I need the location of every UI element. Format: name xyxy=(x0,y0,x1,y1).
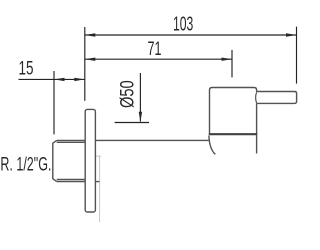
spout outlet right edge xyxy=(256,134,258,153)
fitting top thread line outer / spout top line xyxy=(57,139,209,141)
arrow 71 left xyxy=(85,58,96,61)
extension line 15 xyxy=(53,71,55,134)
wire xyxy=(19,27,297,135)
spout outlet curve xyxy=(209,136,215,155)
svg-text:R. 1/2"G.: R. 1/2"G. xyxy=(0,153,51,175)
fitting top thread line inner xyxy=(57,141,86,143)
leader underline diameter 50 xyxy=(115,122,149,124)
mixer body xyxy=(210,88,257,135)
lever ball arc xyxy=(256,92,257,103)
fitting bottom thread line inner xyxy=(57,179,86,181)
thin wall reference line xyxy=(96,156,101,222)
svg-text:103: 103 xyxy=(173,14,193,36)
threaded inlet fitting R 1/2 G xyxy=(53,140,209,181)
extension line handle tip (right, 103) xyxy=(296,27,298,84)
arrow 103 left xyxy=(85,33,96,36)
svg-text:Ø50: Ø50 xyxy=(118,80,139,108)
dimension line 103 xyxy=(85,34,297,36)
dimension line 71 xyxy=(85,58,232,60)
extension line wall (left datum) xyxy=(84,27,86,101)
lever handle xyxy=(257,92,297,104)
arrow 15 left xyxy=(54,78,65,81)
svg-text:15: 15 xyxy=(19,59,34,80)
svg-text:71: 71 xyxy=(148,39,162,60)
extension line 71 xyxy=(231,50,233,78)
fitting outline xyxy=(53,140,57,181)
mixer body base thick line xyxy=(209,133,257,135)
wall plate escutcheon xyxy=(85,109,95,212)
arrow 15 right xyxy=(74,78,85,81)
arrow 103 right xyxy=(286,33,297,36)
fitting bottom thread line outer xyxy=(57,181,100,183)
dimension line 15 xyxy=(19,78,85,80)
arrow diameter 50 down xyxy=(139,112,142,123)
arrow 71 right xyxy=(222,58,233,61)
leader line diameter 50 xyxy=(139,73,141,122)
